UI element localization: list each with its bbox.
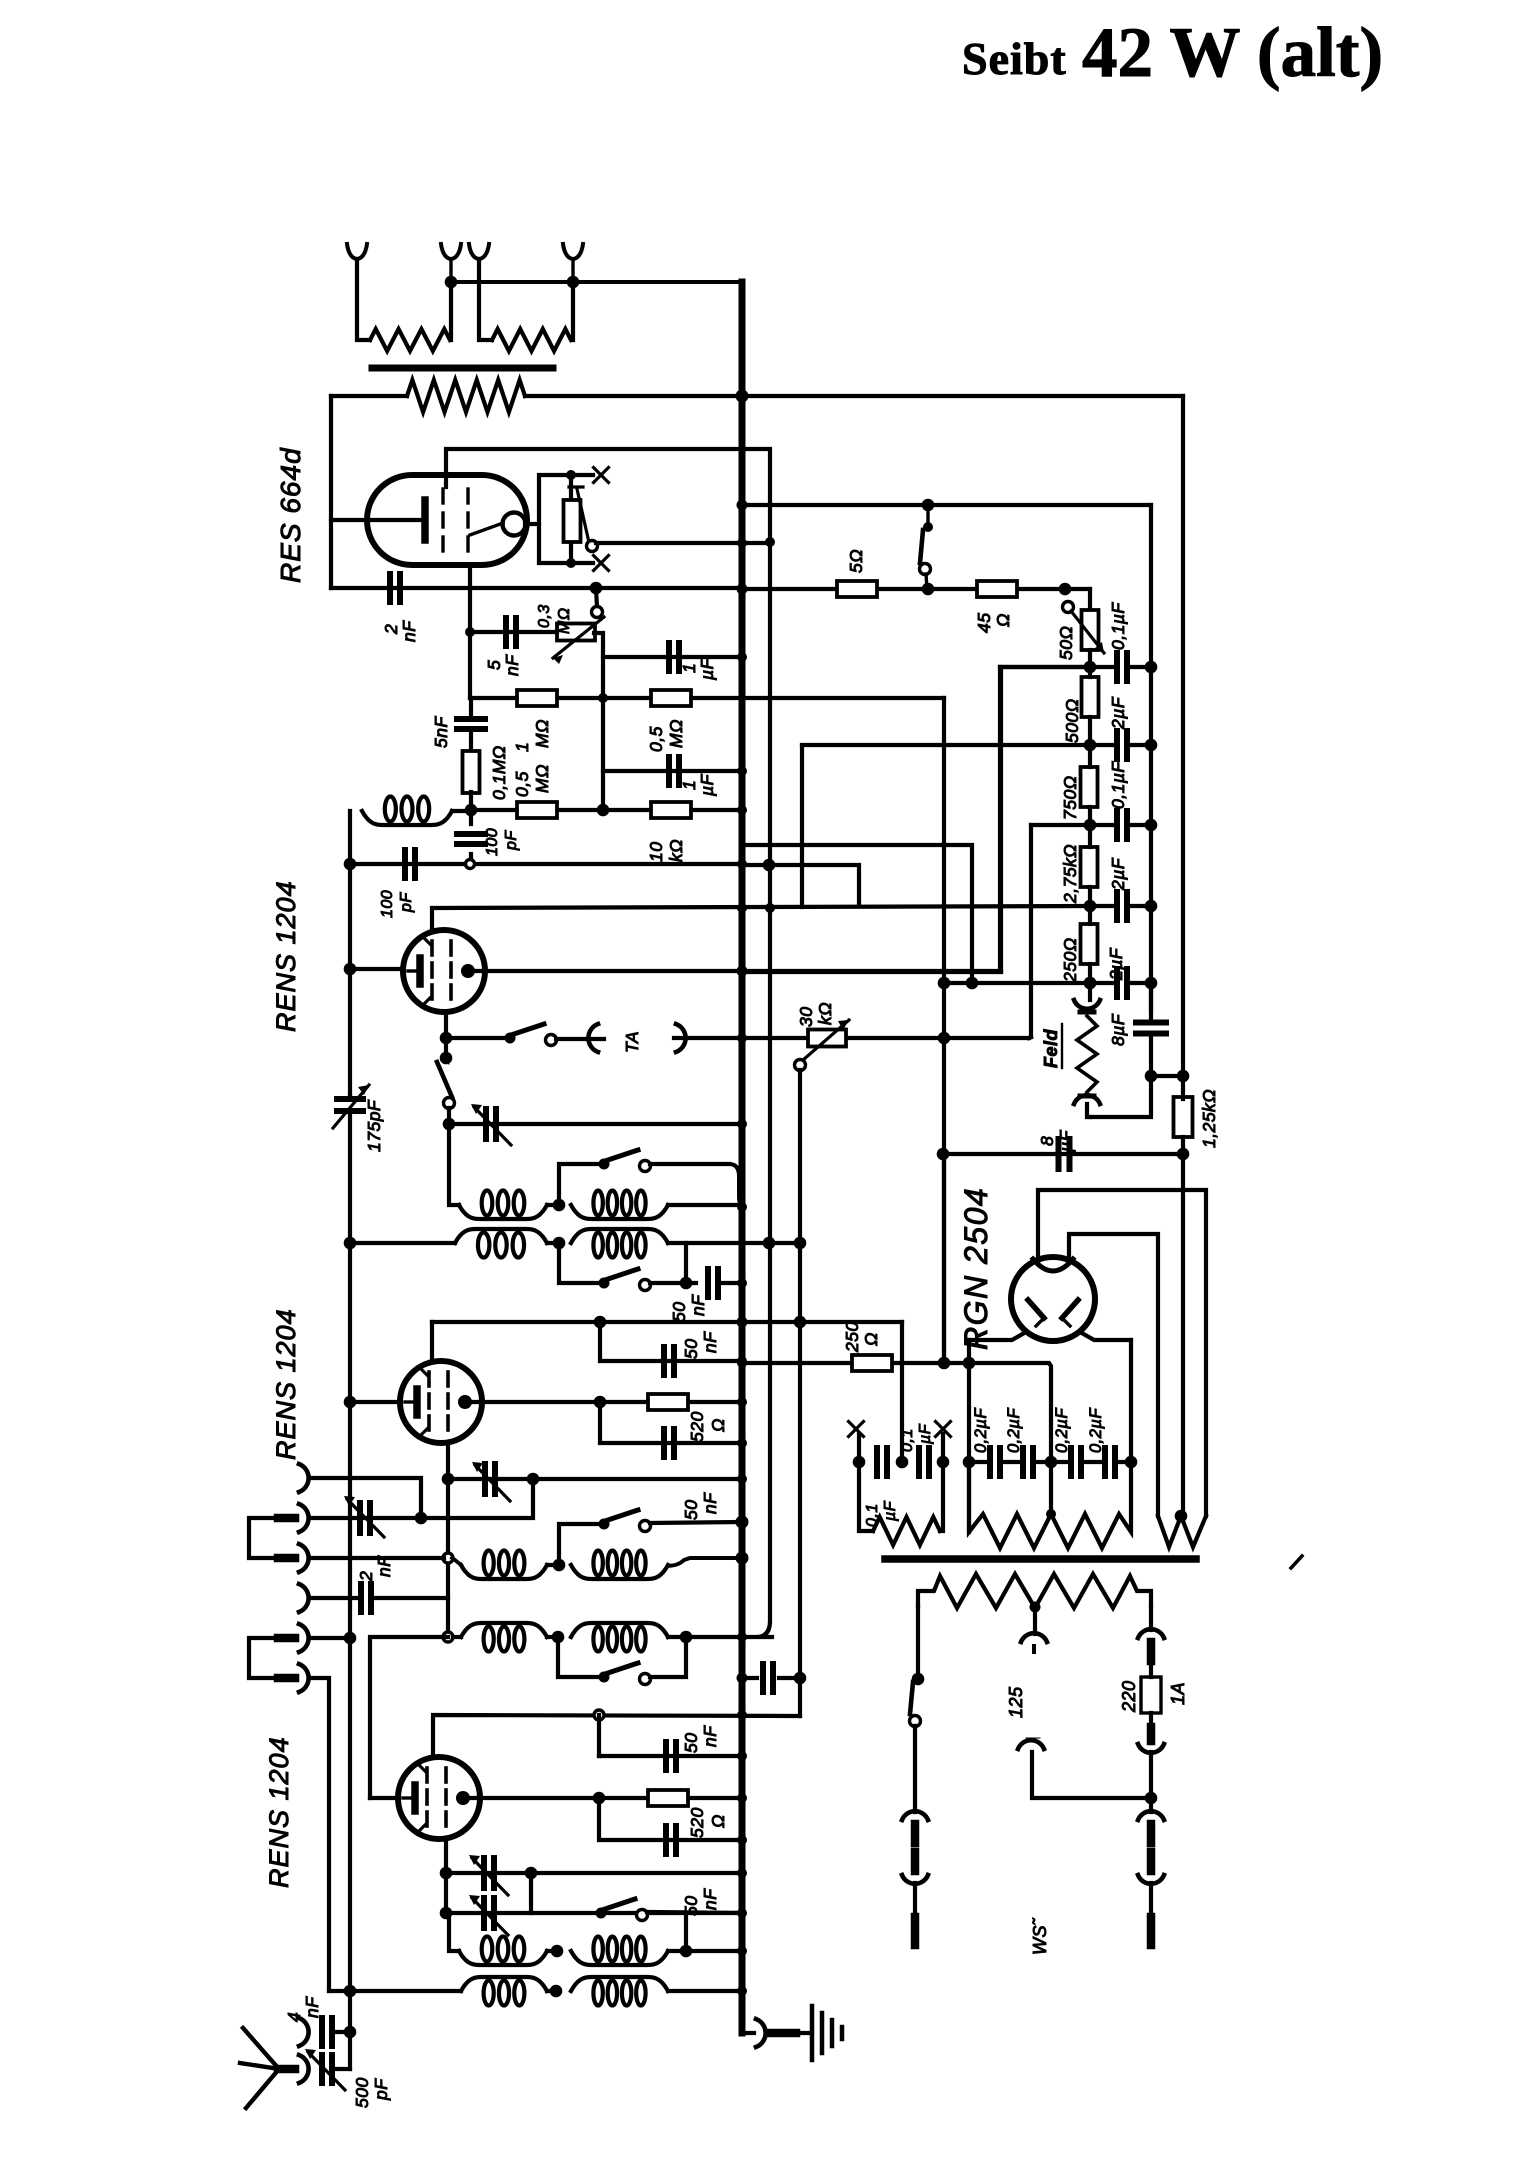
junction	[442, 1473, 455, 1486]
svg-text:1,25kΩ: 1,25kΩ	[1199, 1089, 1219, 1148]
wire grid line RES664d	[446, 449, 742, 487]
cathode bar U1	[421, 500, 429, 540]
wire	[334, 2030, 350, 2034]
svg-text:RES 664d: RES 664d	[275, 447, 306, 583]
junction	[737, 805, 747, 815]
junction	[765, 903, 775, 913]
svg-text:Ω: Ω	[861, 1332, 881, 1346]
connector arc	[1074, 1000, 1100, 1009]
jack J7	[299, 2018, 309, 2046]
resistor 750 Ohm	[1081, 767, 1098, 807]
junction	[737, 1202, 747, 1212]
capacitor 50 nF row3	[705, 1269, 711, 1297]
inductor row5 coilA	[459, 1951, 547, 1965]
junction	[415, 1512, 428, 1525]
junction	[344, 963, 357, 976]
svg-text:5nF: 5nF	[431, 716, 451, 748]
wire	[857, 1434, 861, 1462]
junction	[1145, 900, 1158, 913]
wire 220V	[1149, 1606, 1153, 1630]
capacitor 0,1 uF lamp2	[916, 1448, 922, 1476]
switch S5	[599, 1519, 610, 1530]
wire row5 left	[446, 1911, 449, 1915]
junction	[440, 1907, 453, 1920]
junction	[552, 1631, 565, 1644]
switch S7	[596, 1908, 607, 1919]
junction	[737, 584, 748, 595]
primary winding	[918, 1574, 1151, 1608]
wire row6 left	[329, 1989, 461, 1993]
junction	[736, 1552, 749, 1565]
junction	[737, 538, 747, 548]
svg-text:50: 50	[681, 1339, 701, 1359]
resistor 250 Ohm vert	[1081, 924, 1098, 964]
wire y698	[470, 696, 944, 700]
svg-text:nF: nF	[399, 620, 419, 642]
wire y1038 right	[742, 1036, 1029, 1040]
plug pin	[911, 1917, 920, 1945]
capacitor 0,2 uF a	[987, 1448, 993, 1476]
svg-text:MΩ: MΩ	[666, 719, 686, 748]
svg-text:µF: µF	[697, 773, 717, 797]
speaker/pickup terminal fork 4	[563, 244, 583, 259]
svg-text:2µF: 2µF	[1106, 947, 1126, 981]
resistor 0,5 MOhm	[651, 690, 691, 706]
wire y983	[944, 981, 1090, 985]
tube notch	[1033, 1259, 1073, 1271]
capacitor 5 nF vertical	[457, 716, 485, 722]
plug connector 220	[1138, 1629, 1164, 1638]
potentiometer 30 kOhm	[808, 1030, 846, 1047]
resistor 0,1 MOhm	[463, 751, 480, 793]
filament electrodes	[1028, 1300, 1044, 1318]
wire anode lead 2	[1069, 1234, 1158, 1516]
wire x1029 to pot	[1029, 1037, 1031, 1038]
wire 250 line y1363	[742, 1361, 944, 1365]
wire x533	[309, 1479, 533, 1518]
speaker/pickup terminal fork 3	[469, 244, 489, 259]
inductor row6 coilB	[571, 1977, 668, 1991]
resistor R top-left (zigzag)	[370, 329, 450, 351]
junction	[963, 1357, 976, 1370]
wire x1000	[998, 667, 1002, 968]
wire row5 right	[668, 1949, 742, 1953]
rheostat 50 Ohm	[1065, 587, 1090, 591]
capacitor 0,1 uF (2)	[1114, 811, 1120, 839]
tap circle	[466, 860, 475, 869]
junction	[443, 1118, 456, 1131]
junction	[1145, 661, 1158, 674]
svg-text:nF: nF	[302, 1996, 322, 2018]
pot arrow	[803, 1020, 849, 1060]
wire y845	[742, 845, 972, 983]
wire cathode left	[350, 967, 403, 971]
wire sw row3	[559, 1243, 604, 1283]
switch S8 mains	[922, 499, 935, 512]
junction	[737, 1946, 747, 1956]
junction	[737, 859, 747, 869]
wire y1124	[449, 1122, 742, 1126]
wire y505	[742, 503, 1151, 507]
svg-text:8: 8	[1037, 1136, 1057, 1146]
wire x571	[569, 475, 573, 563]
wire	[913, 1883, 917, 1917]
junction	[737, 583, 747, 593]
inductor row4b coilA	[461, 1623, 547, 1637]
wire filament left	[969, 1332, 1026, 1340]
svg-text:pF: pF	[398, 892, 415, 913]
wire y810	[471, 808, 742, 812]
wire sw row2 left	[559, 1164, 604, 1205]
resistor 1 MOhm	[517, 690, 557, 706]
jack J8 with pin	[299, 2055, 309, 2083]
svg-text:kΩ: kΩ	[666, 839, 686, 862]
svg-text:0,2µF: 0,2µF	[972, 1408, 990, 1453]
svg-text:nF: nF	[700, 1492, 720, 1514]
svg-text:WS˜: WS˜	[1030, 1917, 1050, 1955]
wire row4b	[453, 1635, 461, 1639]
junction	[737, 652, 747, 662]
wire x449 down	[449, 1124, 459, 1205]
svg-text:8µF: 8µF	[1108, 1013, 1128, 1046]
capacitor 50 nF a3	[663, 1826, 669, 1854]
inductor row4 coilB	[571, 1565, 668, 1579]
wire y667	[1000, 665, 1090, 669]
junction	[445, 276, 458, 289]
junction	[597, 804, 610, 817]
jack J5 with pin	[299, 1624, 309, 1652]
capacitor trimmer t2	[482, 1464, 488, 1494]
junction	[794, 1237, 807, 1250]
junction	[550, 1985, 563, 1998]
svg-text:0,1MΩ: 0,1MΩ	[489, 745, 509, 800]
inductor row4 coilA	[461, 1565, 547, 1579]
wire	[447, 1108, 451, 1124]
inductor row3 coilA	[455, 1229, 547, 1243]
junction	[440, 1052, 453, 1065]
wire plate y1401	[465, 1400, 742, 1404]
svg-text:100: 100	[379, 890, 396, 918]
junction	[594, 1316, 607, 1329]
junction	[525, 1867, 538, 1880]
wire	[309, 1478, 421, 1518]
wire row3 left	[350, 1241, 455, 1245]
wire TA to bus	[674, 1036, 742, 1040]
jack J4	[299, 1584, 309, 1612]
svg-text:750Ω: 750Ω	[1060, 775, 1080, 820]
svg-text:2µF: 2µF	[1108, 857, 1128, 891]
wire anode lead	[1038, 1190, 1206, 1516]
resistor 2,75 kOhm	[1081, 847, 1098, 887]
wire x902	[900, 1322, 904, 1462]
x mark	[594, 556, 609, 571]
inductor row5 coilB	[571, 1951, 668, 1965]
junction	[1084, 819, 1097, 832]
wire cathode down	[446, 1443, 450, 1479]
wire x-stub bottom	[571, 561, 593, 565]
resistor secondary zigzag	[407, 380, 525, 412]
svg-text:2µF: 2µF	[1108, 696, 1128, 730]
plug connector 125	[1021, 1633, 1047, 1642]
svg-text:1: 1	[512, 742, 532, 752]
wire y1798	[1032, 1752, 1151, 1798]
tube U1 RES664d envelope	[367, 475, 527, 565]
capacitor 2 uF	[1114, 731, 1120, 759]
capacitor 8 uF vertical	[1136, 1020, 1166, 1026]
wire	[913, 1726, 917, 1812]
wire 50nF drop	[600, 1322, 742, 1361]
tap circle	[443, 1632, 453, 1642]
junction	[737, 1119, 747, 1129]
wire plate up x1000	[1001, 667, 1090, 971]
junction	[344, 1237, 357, 1250]
grid dashes U1	[441, 489, 444, 503]
junction	[465, 804, 478, 817]
svg-text:250Ω: 250Ω	[1060, 937, 1080, 983]
wire 50nF drop2	[600, 1402, 742, 1443]
wire wiper to bus	[596, 541, 772, 545]
resistor 0,5 MOhm horiz	[517, 802, 557, 818]
junction	[794, 1316, 807, 1329]
junction	[1084, 977, 1097, 990]
bracket	[539, 475, 571, 563]
junction	[1145, 1070, 1158, 1083]
potentiometer 0,3 MOhm body	[557, 624, 595, 641]
junction	[566, 470, 576, 480]
resistor 520 Ohm (2)	[648, 1790, 688, 1806]
junction	[763, 859, 776, 872]
transformer core bar	[372, 365, 553, 372]
wire pinch to bracket	[525, 522, 539, 526]
wire Y1 drop	[357, 259, 370, 340]
junction	[1059, 583, 1072, 596]
tube V4 RGN2504	[1011, 1257, 1095, 1341]
plug pin	[1147, 1917, 1156, 1945]
junction	[737, 1632, 747, 1642]
wire row2 right	[668, 1203, 742, 1207]
wire row4b left	[370, 1637, 448, 1798]
svg-text:1: 1	[679, 663, 699, 673]
junction	[966, 977, 979, 990]
switch S4	[599, 1278, 610, 1289]
junction	[1125, 1456, 1138, 1469]
wire x969	[967, 1340, 971, 1532]
wire	[1149, 1798, 1153, 1812]
pickup jack TA right	[676, 1024, 686, 1052]
wiper circle	[587, 541, 598, 552]
capacitor 50 nF bus-grid	[760, 1664, 766, 1692]
resistor 5 Ohm	[837, 581, 877, 597]
wire y396 right	[525, 394, 1183, 398]
svg-text:500: 500	[352, 2077, 372, 2108]
junction	[553, 1237, 566, 1250]
wire y396 left	[331, 394, 407, 398]
wire	[722, 1281, 742, 1285]
junction	[1175, 1510, 1188, 1523]
svg-text:µF: µF	[1056, 1129, 1076, 1153]
junction	[598, 693, 608, 703]
wire y771	[603, 769, 742, 773]
wire y1462	[969, 1460, 989, 1464]
junction	[594, 1396, 607, 1409]
svg-text:0,1µF: 0,1µF	[1108, 761, 1128, 809]
junction	[737, 766, 747, 776]
junction	[736, 1516, 749, 1529]
wire x944 low	[942, 1154, 946, 1363]
junction primary tap	[1030, 1602, 1041, 1613]
wire	[668, 1243, 686, 1283]
wire x944	[942, 698, 946, 1363]
wire x1151 right rail	[1149, 505, 1153, 1010]
wire	[647, 1912, 742, 1913]
junction heater tap	[1046, 1509, 1056, 1519]
wire	[547, 1949, 557, 1953]
capacitor 175 pF trimmer	[337, 1096, 363, 1102]
wire	[1090, 1076, 1151, 1117]
wire x1183 down	[1181, 1154, 1185, 1516]
junction	[1084, 661, 1097, 674]
svg-text:500Ω: 500Ω	[1062, 698, 1082, 743]
wire J4	[309, 1596, 359, 1600]
resistor R top-right (zigzag)	[492, 329, 571, 351]
svg-text:RGN 2504: RGN 2504	[958, 1187, 994, 1350]
plug connector	[1138, 1811, 1164, 1820]
svg-text:RENS 1204: RENS 1204	[271, 1308, 301, 1460]
plug connector	[1138, 1744, 1164, 1753]
wire	[941, 1434, 945, 1462]
junction	[680, 1277, 693, 1290]
junction	[922, 583, 935, 596]
wire J3b	[452, 1558, 461, 1565]
wire	[334, 2067, 350, 2071]
x mark	[594, 468, 609, 483]
svg-text:µF: µF	[882, 1500, 899, 1522]
resistor 500 Ohm	[1082, 677, 1099, 717]
svg-text:220: 220	[1119, 1680, 1139, 1713]
wire	[547, 1203, 559, 1207]
svg-text:Seibt: Seibt	[962, 33, 1067, 84]
svg-text:µF: µF	[697, 657, 717, 681]
field coil Feld zigzag	[1077, 1016, 1097, 1092]
wire	[650, 1522, 740, 1523]
bracket J2-J3	[249, 1518, 278, 1558]
connector arc	[1080, 1094, 1094, 1099]
svg-text:Feld: Feld	[1041, 1028, 1061, 1068]
junction	[344, 2026, 357, 2039]
heater winding	[969, 1462, 1131, 1548]
wire sw row4 left	[559, 1524, 604, 1565]
wire 125V tap	[1033, 1607, 1037, 1634]
wire top bus y282	[451, 280, 742, 284]
capacitor 50 nF a2	[661, 1429, 667, 1457]
plug connector	[902, 1811, 928, 1820]
svg-text:Ω: Ω	[708, 1814, 728, 1828]
wire	[684, 1913, 688, 1951]
wire	[373, 1596, 448, 1600]
wire to TA	[556, 1037, 604, 1041]
inductor row2 coilA	[459, 1205, 547, 1219]
svg-text:2,75kΩ: 2,75kΩ	[1060, 844, 1080, 904]
wire cathode lead	[331, 518, 420, 522]
capacitor 500 pF trimmer	[319, 2055, 325, 2083]
wire	[446, 1036, 510, 1040]
wire J6	[309, 1678, 329, 1991]
svg-text:nF: nF	[700, 1331, 720, 1353]
capacitor 0,2 uF c	[1068, 1448, 1074, 1476]
junction	[1177, 1070, 1190, 1083]
wire	[650, 1281, 696, 1285]
wire y1873	[446, 1871, 742, 1875]
capacitor trimmer t4	[481, 1898, 487, 1928]
wire cath down2	[444, 1038, 448, 1058]
wire row4b right	[668, 1635, 772, 1639]
junction	[1045, 1456, 1058, 1469]
wire row4 right	[668, 1558, 742, 1566]
junction	[590, 582, 603, 595]
junction	[737, 1710, 747, 1720]
junction	[938, 977, 951, 990]
wire y1479	[448, 1477, 742, 1481]
tap circle	[594, 1710, 604, 1720]
resistor 1,25 kOhm	[1174, 1097, 1193, 1137]
svg-text:0,5: 0,5	[646, 726, 666, 752]
capacitor 2 nF jack	[358, 1584, 364, 1612]
transformer core bar	[885, 1555, 1196, 1563]
tube V3 RENS1204	[398, 1757, 480, 1839]
junction	[344, 1396, 357, 1409]
junction	[440, 1867, 453, 1880]
wire x531 down	[529, 1873, 533, 1913]
stray mark	[1291, 1556, 1302, 1568]
tube V1 RENS1204	[403, 930, 485, 1012]
svg-text:520: 520	[687, 1807, 707, 1838]
switch S6	[599, 1672, 610, 1683]
wire x1131	[1129, 1340, 1133, 1462]
junction	[737, 1474, 747, 1484]
pot arrow	[553, 617, 604, 658]
junction	[1145, 1792, 1158, 1805]
junction	[737, 1358, 747, 1368]
wire J5	[309, 1636, 350, 1640]
svg-text:MΩ: MΩ	[532, 764, 552, 793]
svg-text:0,1µF: 0,1µF	[1108, 602, 1128, 650]
switch S1	[505, 1033, 516, 1044]
x mark	[849, 1422, 864, 1437]
junction	[527, 1473, 540, 1486]
junction	[737, 1438, 747, 1448]
junction	[736, 390, 749, 403]
svg-text:50: 50	[669, 1302, 689, 1322]
wire y1322	[432, 1320, 902, 1324]
capacitor 4 nF	[319, 2018, 325, 2046]
junction	[553, 1559, 566, 1572]
inductor row3 coilB	[571, 1229, 668, 1243]
svg-text:1A: 1A	[1168, 1682, 1188, 1705]
junction	[465, 627, 475, 637]
junction	[737, 1751, 747, 1761]
capacitor trimmer	[483, 1109, 489, 1139]
wire y1756	[599, 1754, 742, 1758]
junction	[765, 537, 775, 547]
junction	[1084, 977, 1097, 990]
wire	[650, 1637, 686, 1677]
x mark	[936, 1422, 951, 1437]
capacitor 8 uF (2)	[1056, 1139, 1062, 1169]
wire x448 down	[446, 1479, 450, 1631]
plug connector	[1147, 1852, 1156, 1871]
wire y745	[802, 743, 1090, 747]
svg-text:0,2µF: 0,2µF	[1005, 1408, 1023, 1453]
